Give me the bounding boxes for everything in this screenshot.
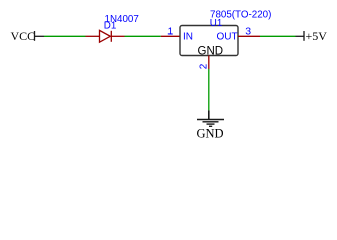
svg-text:7805(TO-220): 7805(TO-220) — [210, 10, 271, 21]
svg-text:VCC: VCC — [11, 29, 36, 43]
svg-text:D1: D1 — [104, 21, 117, 32]
svg-text:GND: GND — [198, 45, 224, 57]
svg-text:IN: IN — [183, 32, 193, 43]
svg-text:3: 3 — [245, 26, 251, 38]
svg-text:+5V: +5V — [306, 29, 328, 43]
svg-text:2: 2 — [199, 63, 210, 69]
svg-text:1: 1 — [168, 26, 174, 37]
svg-text:GND: GND — [197, 127, 224, 141]
svg-text:OUT: OUT — [217, 32, 238, 43]
